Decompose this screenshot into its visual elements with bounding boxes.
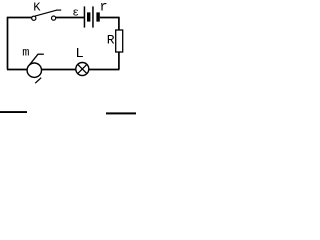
underline segment bottom-right <box>106 112 136 114</box>
svg-text:ε: ε <box>72 8 79 20</box>
motor m circle <box>27 63 41 77</box>
underline segment bottom-left <box>0 111 27 113</box>
svg-text:R: R <box>107 33 115 48</box>
lamp X diagonal 1 <box>78 64 88 74</box>
svg-text:K: K <box>33 1 41 15</box>
lamp X diagonal 2 <box>78 64 88 74</box>
wire bottom row <box>7 69 119 71</box>
motor arrow tip tick <box>38 53 44 55</box>
svg-text:m: m <box>22 45 29 59</box>
resistor R body <box>116 30 123 52</box>
wire left vertical <box>7 18 9 70</box>
svg-text:L: L <box>75 46 83 62</box>
switch K lever <box>35 10 57 16</box>
battery cell 2 short thick plate <box>96 12 99 21</box>
lamp L circle <box>76 63 89 76</box>
switch K lever tip tick <box>56 9 61 11</box>
switch K left contact <box>32 16 36 20</box>
switch K right contact <box>52 16 56 20</box>
motor arrow lower diagonal <box>35 78 41 84</box>
battery cell 1 long plate <box>84 6 86 27</box>
wire right vertical lower (resistor to bottom corner) <box>118 52 120 70</box>
svg-text:r: r <box>100 1 108 16</box>
wire right vertical upper (to resistor) <box>118 18 120 31</box>
wire from battery to top-right corner <box>100 17 120 19</box>
battery cell 1 short thick plate <box>87 12 90 21</box>
wire top from left corner to switch <box>7 17 33 19</box>
motor arrow upper diagonal <box>30 54 39 65</box>
battery cell 2 long plate <box>92 6 94 27</box>
wire from switch to battery <box>56 17 84 19</box>
